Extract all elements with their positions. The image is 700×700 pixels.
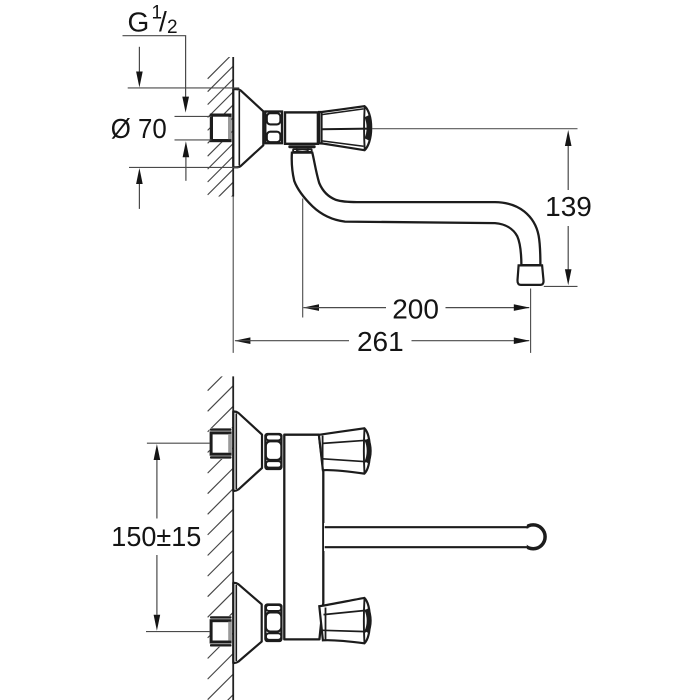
lower escutcheon (bottom view) bbox=[233, 583, 261, 663]
150±15 extension line (lower union) bbox=[146, 631, 210, 633]
spout flange bar (top view) bbox=[288, 145, 315, 148]
139 extension line from handle bbox=[372, 128, 578, 130]
label G 1/2 bbox=[128, 2, 178, 37]
spout (top view, S-shape) bbox=[292, 153, 541, 266]
wall surface line (bottom view) bbox=[232, 376, 234, 700]
139 dimension line bbox=[565, 130, 572, 285]
wall surface line (top view) bbox=[232, 57, 234, 197]
valve nut (top view) bbox=[265, 112, 282, 144]
261 extension line (wall) bbox=[232, 197, 234, 353]
upper handle (bottom view) bbox=[319, 428, 370, 473]
Ø70 bottom arrow bbox=[136, 168, 143, 209]
svg-text:200: 200 bbox=[392, 293, 439, 324]
150±15 dimension line bbox=[154, 444, 161, 631]
lower escutcheon base line bbox=[235, 585, 237, 661]
svg-text:G: G bbox=[128, 6, 150, 37]
faucet body column (bottom view) bbox=[284, 435, 323, 640]
upper wall union square (bottom view) bbox=[210, 428, 232, 459]
wall hatching (top view) bbox=[208, 53, 234, 233]
G1/2 leader underline bbox=[123, 36, 186, 97]
handle (top view) bbox=[319, 106, 371, 150]
thread lower arrow up bbox=[183, 141, 190, 181]
svg-text:/: / bbox=[159, 6, 167, 37]
thread extension lines bbox=[175, 115, 212, 117]
Ø70 top arrow bbox=[136, 47, 143, 88]
upper escutcheon (bottom view) bbox=[233, 412, 262, 491]
escutcheon (top view) bbox=[233, 89, 263, 167]
svg-text:150±15: 150±15 bbox=[111, 521, 201, 552]
wall union square (top view) bbox=[211, 115, 231, 141]
150±15 extension line (upper union) bbox=[147, 442, 210, 444]
200 dimension line bbox=[303, 304, 530, 311]
139 extension line from aerator bbox=[544, 285, 578, 287]
upper escutcheon base line bbox=[235, 414, 237, 490]
G1/2 leader arrow down bbox=[182, 97, 189, 113]
261 dimension line bbox=[234, 337, 529, 344]
lower wall union square (bottom view) bbox=[210, 616, 232, 647]
wall hatching (bottom view) bbox=[208, 365, 234, 700]
svg-text:2: 2 bbox=[167, 17, 178, 38]
lower valve nut (bottom view) bbox=[265, 605, 281, 642]
swivel collar (top view) bbox=[293, 148, 312, 153]
svg-text:Ø 70: Ø 70 bbox=[111, 113, 167, 144]
upper valve nut (bottom view) bbox=[265, 434, 281, 469]
escutcheon base line (top view) bbox=[238, 91, 240, 166]
svg-text:139: 139 bbox=[545, 191, 592, 222]
valve body (top view) bbox=[285, 112, 318, 143]
spout tube (bottom view) bbox=[324, 523, 545, 551]
Ø70 extension lines bbox=[128, 87, 240, 89]
lower handle (bottom view) bbox=[319, 598, 370, 643]
aerator (top view) bbox=[517, 265, 543, 285]
200/261 extension line (aerator center) bbox=[530, 289, 532, 353]
200 extension line (shank center) bbox=[302, 199, 304, 318]
svg-text:261: 261 bbox=[357, 326, 404, 357]
